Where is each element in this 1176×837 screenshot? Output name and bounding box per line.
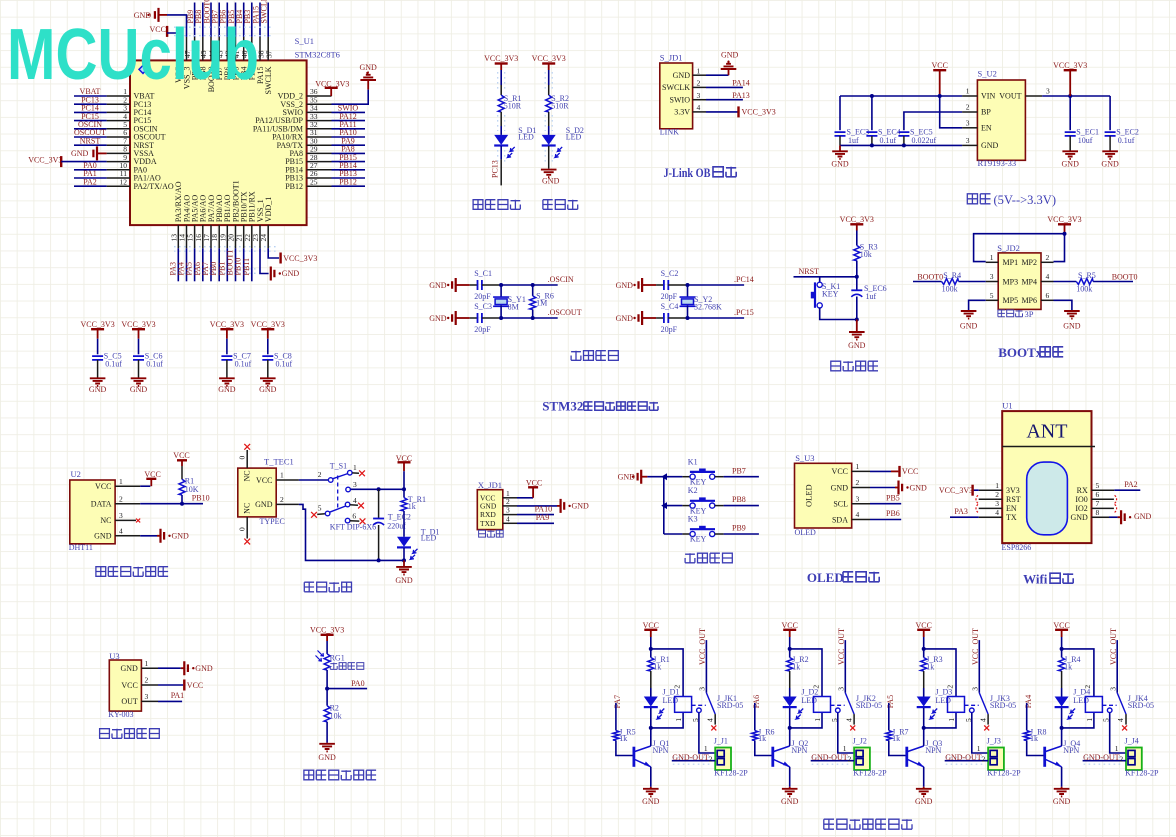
relay contact pin 4 ch4 with X xyxy=(1125,714,1127,725)
relay J_JK3 switch lever xyxy=(979,693,988,714)
svg-text:100k: 100k xyxy=(942,284,958,293)
svg-text:OUT: OUT xyxy=(121,697,138,706)
resistor J_R7 1k xyxy=(886,730,892,740)
svg-text:MP6: MP6 xyxy=(1021,296,1037,305)
IC S_U3 OLED body xyxy=(795,463,852,528)
wire net PB1 from U1 pin 19 xyxy=(226,248,228,281)
svg-text:PA0: PA0 xyxy=(351,679,365,688)
svg-text:3: 3 xyxy=(698,687,707,691)
capacitor S_EC5 0.022uf xyxy=(898,132,909,136)
wire net GND-OUT to J_J3 pin 2 xyxy=(945,760,988,762)
wire K2 to net PB8 xyxy=(715,505,724,507)
svg-text:BP: BP xyxy=(981,108,991,117)
svg-text:BOOT0: BOOT0 xyxy=(917,273,943,282)
svg-text:2: 2 xyxy=(945,685,954,689)
wire J_R4 to J_D4 xyxy=(1061,671,1063,688)
power VCC_3V3 from U1 pin 24 VDD_1 xyxy=(268,248,279,258)
U1 pin 42 PB6 stub xyxy=(226,37,228,61)
resistor J_R3 1k xyxy=(923,649,925,658)
svg-text:NRST: NRST xyxy=(80,136,101,145)
svg-text:4: 4 xyxy=(856,510,860,519)
S_JD1 pin 4 wire to VCC_3V3 xyxy=(693,111,706,113)
svg-text:PA2: PA2 xyxy=(1124,480,1138,489)
wire node to R2 xyxy=(326,689,328,706)
svg-text:3: 3 xyxy=(1046,87,1050,96)
svg-text:PB9: PB9 xyxy=(732,524,746,533)
switch T_S1 pole 2-1 xyxy=(328,478,333,483)
svg-text:0.022uf: 0.022uf xyxy=(912,136,937,145)
svg-text:LED: LED xyxy=(1073,696,1089,705)
svg-text:S_C4: S_C4 xyxy=(661,302,679,311)
svg-text:RXD: RXD xyxy=(480,510,496,519)
svg-text:VCC: VCC xyxy=(173,451,189,460)
svg-text:PB10: PB10 xyxy=(192,493,210,502)
svg-text:RT9193-33: RT9193-33 xyxy=(978,158,1017,168)
U1 pin 40 PB4 stub xyxy=(243,37,245,61)
wire node to relay coil top ch1 xyxy=(651,649,683,697)
resistor J_R4 1k xyxy=(1061,649,1063,658)
wire net PB3 to U1 pin 39 xyxy=(251,3,253,37)
svg-text:0: 0 xyxy=(237,527,246,531)
wire VCC_OUT to relay common ch1 xyxy=(705,640,707,693)
wire node to net .OSCOUT xyxy=(501,317,558,319)
svg-text:.OSCIN: .OSCIN xyxy=(548,275,574,284)
svg-text:NC: NC xyxy=(243,503,252,514)
wire VIN rail xyxy=(840,95,962,97)
wire S_R1 to S_D1 xyxy=(500,112,502,126)
U1 pin 6 OSCOUT stub xyxy=(107,136,130,138)
wire K1 to net PB7 xyxy=(715,476,724,478)
svg-text:PA1: PA1 xyxy=(171,691,185,700)
capacitor S_C2 20pF xyxy=(656,284,664,286)
svg-text:37: 37 xyxy=(265,50,274,58)
svg-text:K3: K3 xyxy=(688,515,698,524)
button bus vertical wire xyxy=(663,477,665,534)
svg-text:J_J4: J_J4 xyxy=(1125,737,1139,746)
S_U3 pin 2 wire to ground xyxy=(852,487,870,489)
caption an-jian-dian-lu (button circuit) xyxy=(685,553,732,563)
wire net BOOT1 from U1 pin 20 xyxy=(235,248,237,281)
svg-text:1: 1 xyxy=(966,87,970,96)
svg-text:DATA: DATA xyxy=(91,500,112,509)
photoresistor RG1 xyxy=(324,654,330,670)
svg-text:3: 3 xyxy=(856,494,860,503)
U1 pin 29 PA8 stub xyxy=(307,152,332,154)
svg-text:GND: GND xyxy=(831,160,849,169)
power VCC_3V3 at S_JD1 pin 4 xyxy=(737,106,739,117)
svg-text:VOUT: VOUT xyxy=(999,92,1021,101)
svg-text:25: 25 xyxy=(310,177,318,186)
U1 pin 47 VSS_3 stub xyxy=(186,37,188,61)
svg-text:VCC: VCC xyxy=(902,467,918,476)
svg-text:S_C1: S_C1 xyxy=(474,269,492,278)
wire net NRST xyxy=(794,276,857,278)
svg-text:1uf: 1uf xyxy=(848,136,859,145)
svg-text:NPN: NPN xyxy=(653,746,669,755)
X_JD1 pin 4 wire net PA9 xyxy=(503,522,517,524)
wire MP6 to ground xyxy=(1054,300,1072,310)
svg-text:1k: 1k xyxy=(892,734,900,743)
svg-text:0.1uf: 0.1uf xyxy=(105,360,122,369)
U2 pin 2 DATA wire net PB10 xyxy=(115,503,140,505)
svg-text:1k: 1k xyxy=(408,502,416,511)
svg-text:0.1uf: 0.1uf xyxy=(235,360,252,369)
selection dots GND-OUT ch1 xyxy=(673,757,713,764)
U2 pin 3 NC stub with X xyxy=(115,519,136,521)
S_JD2 pin 5 stub xyxy=(986,299,999,301)
X_JD1 pin 1 wire to VCC xyxy=(503,497,517,499)
svg-text:PB12: PB12 xyxy=(285,182,303,191)
wire PA5 to J_R7 xyxy=(888,703,890,730)
svg-text:10uf: 10uf xyxy=(1078,136,1093,145)
wire VCC_3V3 to S_R1 xyxy=(500,70,502,85)
svg-text:VCC: VCC xyxy=(121,681,137,690)
U1 pin 5 OSCIN stub xyxy=(107,128,130,130)
svg-text:LINK: LINK xyxy=(660,128,679,137)
IC S_U2 RT9193-33 body xyxy=(977,80,1025,160)
svg-text:3: 3 xyxy=(697,91,701,100)
svg-text:2: 2 xyxy=(318,470,322,479)
svg-text:VCC_3V3: VCC_3V3 xyxy=(283,254,317,263)
svg-text:PA9: PA9 xyxy=(536,513,550,522)
capacitor S_C8 0.1uf xyxy=(262,356,273,360)
U1 wifi pin 8 wire to ground xyxy=(1092,516,1110,518)
S_JD2 pin 1 stub xyxy=(986,261,999,263)
svg-text:BOOTx: BOOTx xyxy=(998,345,1043,360)
svg-text:VDD_1: VDD_1 xyxy=(264,197,273,222)
switch T_S1 pole 3 contact xyxy=(346,487,351,492)
wire net PB13 from U1 pin 26 xyxy=(332,177,366,179)
svg-text:PA13: PA13 xyxy=(732,91,750,100)
svg-text:8: 8 xyxy=(1096,508,1100,517)
wire net PA7 from U1 pin 17 xyxy=(210,248,212,281)
selection dots GND-OUT ch4 xyxy=(1084,757,1124,764)
svg-text:2: 2 xyxy=(848,755,852,764)
capacitor S_C3 20pF xyxy=(470,317,478,319)
svg-text:510R: 510R xyxy=(551,101,569,110)
svg-text:KEY: KEY xyxy=(822,290,839,299)
svg-text:1: 1 xyxy=(697,66,701,75)
wire bus to button K3 xyxy=(664,533,683,535)
S_JD1 pin 2 wire net PA14 xyxy=(693,86,706,88)
svg-text:1: 1 xyxy=(145,659,149,668)
U1 wifi pin 6 IO0 stub xyxy=(1092,498,1114,500)
U1 pin 28 PB15 stub xyxy=(307,161,332,163)
capacitor S_C7 0.1uf xyxy=(221,356,232,360)
svg-text:K1: K1 xyxy=(688,457,698,466)
junction VIN/VCC xyxy=(938,94,942,98)
selection dots LED columns xyxy=(498,72,553,164)
U3 pin 1 wire to ground xyxy=(141,667,158,669)
relay J_JK1 SRD-05 coil xyxy=(675,697,692,713)
svg-text:0: 0 xyxy=(237,456,246,460)
wire J_R3 to J_D3 xyxy=(923,671,925,688)
svg-text:GND: GND xyxy=(642,797,660,806)
wire PA4 to J_R8 xyxy=(1026,703,1028,730)
wire BOOT0 right xyxy=(1093,281,1133,283)
wire bus to button K1 xyxy=(664,476,683,478)
svg-text:GND: GND xyxy=(318,753,336,762)
svg-text:4: 4 xyxy=(1046,272,1050,281)
svg-text:3: 3 xyxy=(971,687,980,691)
wire net PB5 to U1 pin 41 xyxy=(235,3,237,37)
wire VCC_OUT to relay common ch2 xyxy=(844,640,846,693)
svg-text:1: 1 xyxy=(856,462,860,471)
wire coil bottom to node ch2 xyxy=(790,712,822,728)
wire S_C3 to node xyxy=(482,317,501,319)
resistor S_R1 510R xyxy=(498,95,504,112)
wire R1 to DATA xyxy=(181,495,183,504)
ground below S_D2 xyxy=(541,170,557,178)
svg-text:2: 2 xyxy=(709,755,713,764)
capacitor S_EC1 10uf xyxy=(1069,96,1071,130)
wire net PC13 to U1 pin 2 xyxy=(74,103,107,105)
S_JD2 pin 6 stub xyxy=(1041,299,1054,301)
wire node to relay coil top ch2 xyxy=(790,649,822,697)
svg-text:LED: LED xyxy=(566,133,582,142)
svg-text:0.1uf: 0.1uf xyxy=(1118,136,1135,145)
svg-text:VCC_3V3: VCC_3V3 xyxy=(310,626,344,635)
capacitor S_EC2 0.1uf xyxy=(1109,96,1111,130)
ground below J_Q3 xyxy=(923,787,925,789)
wire J_R6 to base of J_Q2 xyxy=(755,740,772,755)
U1 wifi pin 1 wire to VCC_3V3 xyxy=(979,489,1003,491)
relay J_JK1 switch lever xyxy=(706,693,715,714)
svg-text:MP3: MP3 xyxy=(1003,277,1019,286)
svg-text:3: 3 xyxy=(966,119,970,128)
wire net SWIO from U1 pin 34 xyxy=(332,111,366,113)
U1 pin 35 VSS_2 stub xyxy=(307,103,332,105)
wire collector of J_Q4 to node xyxy=(1061,728,1063,746)
resistor T_R1 1k xyxy=(401,498,407,511)
svg-text:K2: K2 xyxy=(688,486,698,495)
wire net OSCIN to U1 pin 5 xyxy=(74,128,107,130)
svg-text:1: 1 xyxy=(1115,744,1119,753)
wire net PB11 from U1 pin 22 xyxy=(251,248,253,281)
U1 pin 30 PA9/TX stub xyxy=(307,144,332,146)
svg-text:S_U1: S_U1 xyxy=(295,36,314,46)
svg-text:TX: TX xyxy=(1006,513,1017,522)
svg-text:U2: U2 xyxy=(71,469,81,479)
svg-text:NC: NC xyxy=(100,516,111,525)
svg-text:0.1uf: 0.1uf xyxy=(146,360,163,369)
wire net GND-OUT to J_J1 pin 2 xyxy=(672,760,715,762)
capacitor S_EC4 0.1uf xyxy=(871,96,873,130)
transistor J_Q3 NPN xyxy=(905,747,908,767)
svg-text:3P: 3P xyxy=(1025,309,1034,319)
svg-text:J_J2: J_J2 xyxy=(853,737,867,746)
svg-text:IO0: IO0 xyxy=(1075,495,1087,504)
X_JD1 pin 2 wire to ground xyxy=(503,505,517,507)
S_JD2 pin 3 stub xyxy=(986,281,999,283)
resistor J_R6 1k xyxy=(752,730,758,740)
wire collector of J_Q1 to node xyxy=(650,728,652,746)
svg-text:VCC: VCC xyxy=(144,470,160,479)
LED J_D2 xyxy=(783,697,797,707)
svg-text:GND: GND xyxy=(1062,160,1080,169)
svg-text:GND: GND xyxy=(130,385,148,394)
ground at wifi pin 8 xyxy=(1118,516,1122,518)
ground below reset xyxy=(856,320,858,332)
U1 pin 10 PA0 stub xyxy=(107,169,130,171)
wire relay pin5 to connector J_J1 pin 1 xyxy=(699,713,715,753)
svg-text:BOOT0: BOOT0 xyxy=(1112,273,1138,282)
svg-text:S_JD2: S_JD2 xyxy=(997,243,1020,253)
svg-text:4: 4 xyxy=(506,514,510,523)
svg-text:S_U2: S_U2 xyxy=(978,69,997,79)
wire ground rail to S_U2 GND xyxy=(840,144,962,146)
svg-text:GND: GND xyxy=(616,281,634,290)
relay contact pin 5 ch1 xyxy=(697,708,702,713)
U1 pin 45 PB8 stub xyxy=(202,37,204,61)
svg-text:GND: GND xyxy=(195,664,213,673)
svg-text:MP1: MP1 xyxy=(1003,258,1019,267)
wire to S_C7 xyxy=(226,339,228,355)
caption ke-bian-cheng-deng (programmable LED) xyxy=(473,200,520,210)
svg-text:ANT: ANT xyxy=(1026,421,1067,443)
svg-text:4: 4 xyxy=(1116,718,1125,722)
ground below S_C6 xyxy=(131,378,147,386)
wire S_R3 to NRST node xyxy=(856,261,858,277)
svg-text:2: 2 xyxy=(1119,755,1123,764)
LED S_D2 xyxy=(542,135,556,145)
ANT separator line xyxy=(1002,446,1095,448)
svg-text:MP5: MP5 xyxy=(1003,296,1019,305)
svg-text:2: 2 xyxy=(856,478,860,487)
svg-text:1: 1 xyxy=(813,718,822,722)
junction VOUT/EC1 xyxy=(1068,94,1072,98)
U1 pin 11 PA1/AO stub xyxy=(107,177,130,179)
svg-text:PB12: PB12 xyxy=(339,177,357,186)
wire LED S_D2 to ground xyxy=(548,146,550,169)
wire S_R2 to S_D2 xyxy=(548,112,550,126)
svg-text:TYPEC: TYPEC xyxy=(260,517,285,526)
svg-text:1k: 1k xyxy=(926,663,934,672)
wire net PB9 to U1 pin 46 xyxy=(194,3,196,37)
capacitor S_EC3 1uf xyxy=(839,96,841,130)
svg-text:2: 2 xyxy=(995,490,999,499)
U1 pin 22 PB11/RX stub xyxy=(251,225,253,248)
wire VCC to node ch2 xyxy=(789,637,791,649)
relay contact pin 4 ch2 with X xyxy=(853,714,855,725)
wire net PA9 from U1 pin 30 xyxy=(332,144,366,146)
svg-text:LED: LED xyxy=(518,133,534,142)
svg-text:3: 3 xyxy=(990,272,994,281)
wire emitter of J_Q3 to ground xyxy=(923,767,925,787)
svg-text:NPN: NPN xyxy=(1063,746,1079,755)
svg-text:3: 3 xyxy=(995,499,999,508)
svg-text:3: 3 xyxy=(145,692,149,701)
svg-text:KF128-2P: KF128-2P xyxy=(853,768,887,777)
wire to S_C5 xyxy=(97,339,99,355)
svg-text:.PC14: .PC14 xyxy=(734,275,754,284)
svg-text:3V3: 3V3 xyxy=(1006,486,1020,495)
svg-text:RST: RST xyxy=(1006,495,1021,504)
U1 wifi pin 4 wire net PA3 xyxy=(979,516,1003,518)
relay J_JK4 link dashed xyxy=(1102,704,1116,706)
svg-text:GND: GND xyxy=(94,532,112,541)
wire net OSCOUT to U1 pin 6 xyxy=(74,136,107,138)
wire net GND-OUT to J_J4 pin 2 xyxy=(1083,760,1126,762)
svg-text:4: 4 xyxy=(353,496,357,505)
svg-text:5: 5 xyxy=(1096,481,1100,490)
U2 pin 1 wire to VCC xyxy=(115,485,140,487)
svg-text:PA2/TX/AO: PA2/TX/AO xyxy=(134,182,174,191)
wire to S_C8 xyxy=(267,339,269,355)
wire VCC_OUT to relay common ch4 xyxy=(1116,640,1118,693)
T_TEC1 top NC pin with X xyxy=(246,450,248,468)
wire EN to VIN xyxy=(940,96,962,128)
svg-text:10k: 10k xyxy=(330,712,342,721)
U1 pin 39 PB3 stub xyxy=(251,37,253,61)
svg-text:1k: 1k xyxy=(1030,734,1038,743)
svg-text:S_C2: S_C2 xyxy=(661,269,679,278)
S_U3 pin 4 wire net PB6 xyxy=(852,519,870,521)
svg-text:.OSCOUT: .OSCOUT xyxy=(548,308,582,317)
S_U2 pin 3 EN stub xyxy=(962,127,977,129)
svg-text:GND-OUT: GND-OUT xyxy=(1083,753,1120,762)
U1 pin 44 BOOT0 stub xyxy=(210,37,212,61)
U1 pin 4 PC15 stub xyxy=(107,120,130,122)
svg-text:MP2: MP2 xyxy=(1021,258,1037,267)
connector T_TEC1 TYPEC body xyxy=(238,468,276,517)
wire relay pin5 to connector J_J2 pin 1 xyxy=(838,713,854,753)
U1 pin 15 PA5/AO stub xyxy=(194,225,196,248)
IC U1 STM32C8T6 body xyxy=(130,60,307,225)
resistor R1 10K pullup xyxy=(179,479,185,495)
svg-text:PC13: PC13 xyxy=(490,160,499,178)
connector S_JD1 LINK body xyxy=(660,63,693,129)
svg-text:32.768K: 32.768K xyxy=(694,302,722,311)
svg-text:GND: GND xyxy=(282,269,300,278)
capacitor S_C5 0.1uf xyxy=(92,356,103,360)
wire node to net .PC15 xyxy=(688,317,745,319)
svg-text:VCC_3V3: VCC_3V3 xyxy=(484,54,518,63)
svg-text:10k: 10k xyxy=(860,250,872,259)
wire net PB12 from U1 pin 25 xyxy=(332,185,366,187)
svg-text:OLED: OLED xyxy=(804,484,814,507)
svg-text:4: 4 xyxy=(119,527,123,536)
wire S_C8 to ground xyxy=(267,360,269,378)
svg-text:GND: GND xyxy=(542,177,560,186)
svg-text:0.1uf: 0.1uf xyxy=(276,360,293,369)
svg-text:GND-OUT: GND-OUT xyxy=(811,753,848,762)
ground below S_C8 xyxy=(260,378,276,386)
svg-text:KF128-2P: KF128-2P xyxy=(714,768,748,777)
svg-text:4: 4 xyxy=(978,718,987,722)
svg-text:KF128-2P: KF128-2P xyxy=(987,768,1021,777)
svg-text:1k: 1k xyxy=(1064,663,1072,672)
svg-text:1uf: 1uf xyxy=(866,292,877,301)
svg-text:NPN: NPN xyxy=(925,746,941,755)
svg-text:2: 2 xyxy=(1083,685,1092,689)
svg-text:GND: GND xyxy=(395,576,413,585)
IC U1 ESP8266 body xyxy=(1002,411,1091,543)
ground from U1 pin 23 VSS_1 xyxy=(260,248,269,273)
wire J_R1 to J_D1 xyxy=(650,671,652,688)
relay contact pin 5 ch3 xyxy=(970,708,975,713)
svg-text:LED: LED xyxy=(801,696,817,705)
svg-text:RG1: RG1 xyxy=(330,654,345,663)
wire net PA4 from U1 pin 14 xyxy=(186,248,188,281)
svg-text:VCC_3V3: VCC_3V3 xyxy=(742,108,776,117)
svg-text:2: 2 xyxy=(811,685,820,689)
wire S_C7 to ground xyxy=(226,360,228,378)
selection dots GND-OUT ch2 xyxy=(812,757,852,764)
wire BP to EC5 xyxy=(904,112,962,130)
svg-text:1: 1 xyxy=(674,718,683,722)
svg-text:SWCLK: SWCLK xyxy=(260,0,269,24)
